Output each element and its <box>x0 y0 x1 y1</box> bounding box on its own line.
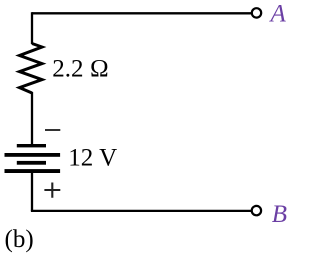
svg-text:(b): (b) <box>5 226 34 253</box>
svg-text:12 V: 12 V <box>68 145 117 172</box>
svg-text:A: A <box>269 1 287 28</box>
battery plate long 2 <box>5 169 61 173</box>
terminal A circle <box>252 8 261 17</box>
wire left vertical middle <box>31 92 33 146</box>
resistor R zigzag <box>20 44 43 94</box>
battery plate short 2 <box>17 161 46 165</box>
wire left vertical lower <box>31 172 33 211</box>
wire top horizontal <box>32 12 251 14</box>
battery plate long 1 <box>5 153 61 157</box>
terminal B circle <box>252 206 261 215</box>
wire left vertical upper <box>31 12 33 44</box>
wire bottom horizontal <box>31 210 251 212</box>
battery minus sign <box>45 129 60 131</box>
battery plate short 1 <box>17 144 46 147</box>
svg-text:2.2 Ω: 2.2 Ω <box>52 55 109 82</box>
svg-text:B: B <box>272 201 287 228</box>
battery plus sign <box>44 183 60 198</box>
